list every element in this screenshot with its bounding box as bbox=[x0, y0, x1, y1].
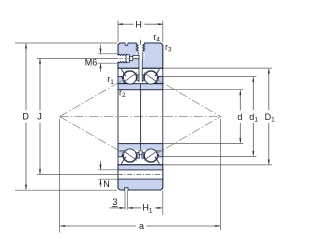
outer ring upper section body bbox=[118, 43, 163, 68]
svg-text:M6: M6 bbox=[85, 58, 98, 68]
bore silhouette centre split bbox=[140, 90, 142, 144]
dimension H1 line with arrows bbox=[128, 191, 163, 215]
dimension M6 extension lines and arrows bbox=[98, 45, 118, 72]
svg-text:r3: r3 bbox=[165, 42, 172, 54]
dimension D1 vertical with arrows and extension lines bbox=[163, 68, 272, 165]
ball upper-right bbox=[144, 71, 157, 84]
lower raceway band bbox=[119, 150, 163, 165]
cage bar lower-left bbox=[121, 157, 126, 164]
outer ring lower section body bbox=[118, 165, 163, 190]
node D: contact line lower apex to right pressure centre bbox=[141, 117, 221, 164]
node A: contact line left pressure centre to upper apex bbox=[60, 70, 141, 117]
inner ring shoulder wedge lower-right bbox=[155, 151, 163, 157]
tick above lube hole bbox=[139, 40, 141, 45]
dimension H line with arrows bbox=[118, 21, 163, 42]
svg-text:r1: r1 bbox=[107, 74, 114, 86]
inner ring shoulder wedge upper-right bbox=[155, 76, 163, 83]
svg-text:H1: H1 bbox=[142, 203, 153, 215]
contact line entry segment upper-left bbox=[118, 79, 125, 83]
top face slot notch bbox=[125, 42, 128, 45]
annular lubrication groove lower ring bbox=[118, 170, 163, 179]
inner ring split lower bbox=[140, 144, 142, 151]
contact segment upper-right ball bbox=[144, 73, 158, 83]
upper raceway band bbox=[119, 69, 163, 84]
svg-text:N: N bbox=[103, 179, 110, 189]
dimension d vertical with arrows and extension lines bbox=[163, 90, 243, 144]
lubrication duct stub lower bbox=[139, 151, 142, 155]
inner ring shoulder wedge upper-left bbox=[118, 76, 126, 83]
ball upper-left bbox=[123, 71, 136, 84]
svg-text:D: D bbox=[22, 112, 29, 122]
outer ring tongue bumps between upper balls bbox=[137, 75, 140, 81]
inner ring shoulder wedge lower-left bbox=[118, 151, 126, 157]
svg-text:r4: r4 bbox=[153, 32, 160, 44]
threaded lubrication hole top centre bbox=[136, 42, 144, 59]
cage bar upper-right bbox=[155, 69, 160, 76]
inner ring upper strip bbox=[118, 84, 163, 90]
contact segment lower-left ball bbox=[123, 151, 137, 161]
svg-text:3: 3 bbox=[112, 197, 117, 207]
contact segment upper-left ball bbox=[123, 73, 137, 83]
inner ring split upper bbox=[140, 84, 142, 90]
svg-text:J: J bbox=[37, 112, 42, 122]
svg-text:d: d bbox=[237, 112, 242, 122]
contact segment lower-right ball bbox=[144, 151, 158, 161]
wire: bearing axis centerline bbox=[60, 116, 223, 118]
dimension a line with arrows and extension lines bbox=[60, 119, 221, 233]
outer ring tongue bumps between lower balls bbox=[137, 153, 140, 159]
M6 grease fitting hole on left face bbox=[117, 54, 139, 63]
outer ring shoulder line lower bbox=[118, 164, 163, 166]
bore silhouette right edge bbox=[162, 90, 164, 144]
central lubrication duct bbox=[139, 59, 142, 82]
dimension J vertical with arrows and extension lines bbox=[37, 58, 118, 174]
outer ring shoulder line upper bbox=[118, 67, 163, 69]
node C: contact line left pressure centre to lower apex bbox=[60, 117, 141, 164]
cage bar lower-right bbox=[155, 157, 160, 164]
cage bar upper-left bbox=[121, 69, 126, 76]
dimension 3 slot extension lines and leader arrow bbox=[110, 191, 128, 210]
dimension N extension lines and arrows bbox=[98, 161, 118, 187]
dimension D vertical with arrows and extension lines bbox=[15, 43, 118, 190]
ball lower-left bbox=[123, 149, 136, 162]
inner ring lower strip bbox=[118, 144, 163, 151]
bore silhouette left edge bbox=[117, 90, 119, 144]
contact line entry segment upper-right bbox=[156, 79, 163, 83]
contact line entry segment lower-right bbox=[156, 150, 163, 154]
svg-text:D1: D1 bbox=[265, 112, 276, 124]
svg-text:d1: d1 bbox=[249, 112, 258, 124]
contact line entry segment lower-left bbox=[118, 150, 125, 154]
svg-text:a: a bbox=[139, 221, 144, 231]
ball lower-right bbox=[144, 149, 157, 162]
dimension d1 vertical with arrows and extension lines bbox=[163, 77, 256, 157]
svg-text:H: H bbox=[135, 19, 142, 29]
node B: contact line upper apex to right pressure centre bbox=[141, 70, 221, 117]
bottom face slot notch bbox=[125, 188, 128, 191]
